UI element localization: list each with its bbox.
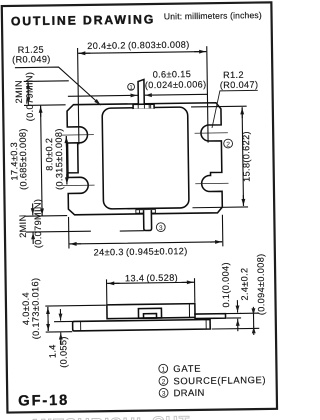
svg-text:0.1(0.004): 0.1(0.004): [220, 262, 231, 308]
dimension 2.4 lead height: [212, 307, 259, 335]
svg-text:R1.2: R1.2: [223, 70, 244, 80]
svg-text:2: 2: [162, 379, 166, 386]
dimension 24 flange width: [69, 215, 223, 248]
dimension 0.1 lead thickness: [226, 301, 241, 331]
svg-text:15.8(0.622): 15.8(0.622): [241, 131, 252, 182]
svg-text:20.4±0.2 (0.803±0.008): 20.4±0.2 (0.803±0.008): [87, 40, 190, 51]
svg-text:(0.055): (0.055): [58, 336, 68, 368]
svg-text:(0.094±0.008): (0.094±0.008): [256, 253, 267, 315]
svg-text:1.4: 1.4: [47, 344, 57, 358]
svg-text:2MIN: 2MIN: [18, 214, 28, 237]
svg-text:(0.079MIN): (0.079MIN): [24, 72, 35, 122]
svg-text:MITSUBISHI: MITSUBISHI: [32, 414, 142, 420]
dimension 15.8 body height: [192, 106, 248, 208]
legend pin 1: [159, 364, 202, 376]
dimension 0.6 lead width: [68, 94, 207, 96]
pin callout 1 (gate): [128, 83, 135, 91]
svg-text:CHT: CHT: [152, 413, 191, 420]
dimension 2MIN (top lead protrusion): [24, 81, 68, 105]
legend pin 2: [159, 375, 266, 387]
svg-text:(0.173±0.016): (0.173±0.016): [30, 278, 41, 340]
svg-text:GF-18: GF-18: [18, 393, 69, 410]
svg-text:2MIN: 2MIN: [14, 80, 24, 103]
side cap: [107, 304, 195, 319]
svg-text:SOURCE(FLANGE): SOURCE(FLANGE): [173, 375, 266, 387]
flange left groove box: [68, 143, 79, 172]
dimension 8.0 slot pitch: [65, 137, 68, 184]
flange outline (source flange with slots): [67, 103, 222, 215]
pin callout 3 (drain): [156, 223, 165, 232]
drain lead (bottom): [144, 211, 152, 231]
svg-text:OUTLINE DRAWING: OUTLINE DRAWING: [11, 12, 155, 28]
dimension 2MIN (bottom lead protrusion): [26, 202, 144, 243]
svg-text:(0.024±0.006): (0.024±0.006): [145, 79, 207, 90]
dimension 13.4 cap width: [107, 279, 195, 304]
side flange: [73, 320, 211, 331]
pin callout 2 (source flange): [224, 139, 233, 148]
svg-text:3: 3: [159, 225, 163, 232]
svg-text:(0.685±0.008): (0.685±0.008): [18, 128, 29, 190]
svg-text:2.4±0.2: 2.4±0.2: [239, 267, 249, 300]
gate lead (top): [138, 79, 144, 105]
body cap (rounded square): [102, 107, 189, 209]
legend pin 3: [159, 388, 205, 400]
svg-text:3: 3: [162, 391, 166, 398]
svg-text:DRAIN: DRAIN: [174, 388, 205, 399]
dimension 4.0 overall height: [46, 305, 106, 332]
side inner block: [138, 308, 161, 318]
svg-text:(0.315±0.008): (0.315±0.008): [54, 128, 65, 190]
slot centerlines: [62, 133, 228, 186]
svg-text:0.6±0.15: 0.6±0.15: [153, 69, 192, 80]
svg-text:13.4 (0.528): 13.4 (0.528): [125, 273, 178, 284]
svg-text:1: 1: [161, 367, 165, 374]
svg-text:(R0.047): (R0.047): [220, 80, 259, 91]
svg-text:2: 2: [226, 141, 230, 148]
top ceramic strip: [133, 104, 154, 108]
dimension 1.4 flange thickness: [54, 309, 72, 344]
bottom ceramic strip: [136, 209, 156, 213]
svg-text:(0.079MIN): (0.079MIN): [33, 199, 44, 249]
svg-text:GATE: GATE: [173, 364, 201, 375]
dimension 17.4 flange height: [25, 105, 67, 216]
svg-text:(R0.049): (R0.049): [12, 54, 51, 65]
svg-text:24±0.3 (0.945±0.012): 24±0.3 (0.945±0.012): [94, 246, 188, 257]
svg-text:Unit: millimeters (inches): Unit: millimeters (inches): [164, 10, 262, 21]
side drain lead: [195, 314, 226, 319]
dimension 20.4: [78, 47, 209, 144]
